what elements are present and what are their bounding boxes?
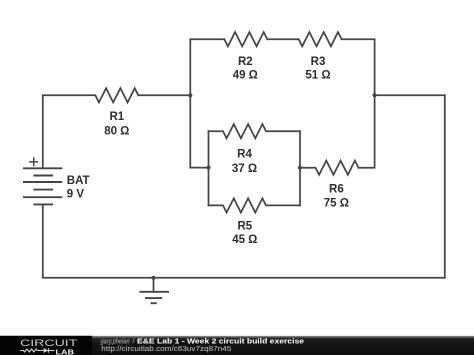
junction right of R4/R5 — [298, 166, 302, 170]
svg-text:80 Ω: 80 Ω — [104, 125, 129, 137]
node B junction — [373, 93, 377, 97]
logo resistor-diode glyph — [20, 348, 54, 353]
resistor R3 — [299, 32, 342, 46]
svg-text:LAB: LAB — [56, 347, 75, 355]
resistor R6 — [300, 161, 359, 175]
resistor R2 — [224, 32, 267, 46]
wire node A down to parallel block — [190, 95, 208, 167]
wire R6 to node B — [359, 95, 375, 168]
footer bar — [0, 336, 474, 355]
wire battery- down — [42, 204, 44, 277]
wire bottom return — [43, 277, 445, 279]
svg-text:75 Ω: 75 Ω — [324, 198, 349, 210]
svg-text:37 Ω: 37 Ω — [232, 163, 257, 175]
resistor R5 — [209, 198, 301, 212]
svg-text:BAT: BAT — [67, 175, 90, 187]
junction left of R4/R5 — [206, 166, 210, 170]
wire R1 to node A — [138, 94, 190, 96]
svg-text:R1: R1 — [109, 111, 124, 123]
resistor R4 — [209, 124, 301, 138]
battery + polarity mark — [29, 157, 38, 166]
svg-text:R6: R6 — [329, 184, 344, 196]
ground stub — [153, 278, 155, 292]
node A junction — [188, 93, 192, 97]
ground symbol — [139, 292, 169, 303]
ground junction — [151, 276, 155, 280]
svg-text:gary.phelan / E&E Lab 1 - Week: gary.phelan / E&E Lab 1 - Week 2 circuit… — [100, 339, 304, 346]
wire right edge down — [444, 95, 446, 278]
svg-text:45 Ω: 45 Ω — [232, 234, 257, 246]
svg-text:R4: R4 — [237, 148, 252, 160]
svg-text:CIRCUIT: CIRCUIT — [20, 337, 78, 348]
wire R3 to node B — [342, 39, 375, 95]
logo block — [0, 336, 92, 355]
battery BAT plates — [23, 168, 62, 204]
svg-text:R2: R2 — [238, 56, 253, 68]
wire node B to right edge — [375, 94, 445, 96]
wire battery+ to R1 — [43, 95, 96, 167]
wire R2 to R3 — [267, 38, 298, 40]
svg-text:http://circuitlab.com/c63uv7zq: http://circuitlab.com/c63uv7zq87n45 — [101, 346, 231, 353]
svg-text:R5: R5 — [237, 221, 252, 233]
svg-text:R3: R3 — [311, 56, 326, 68]
resistor R1 — [95, 88, 138, 102]
svg-text:49 Ω: 49 Ω — [233, 70, 258, 82]
svg-text:51 Ω: 51 Ω — [305, 70, 330, 82]
wire right side of R4/R5 block — [299, 131, 301, 205]
wire left side of R4/R5 block — [208, 131, 210, 205]
wire node A up to top branch — [190, 39, 224, 95]
svg-text:9 V: 9 V — [67, 189, 85, 201]
